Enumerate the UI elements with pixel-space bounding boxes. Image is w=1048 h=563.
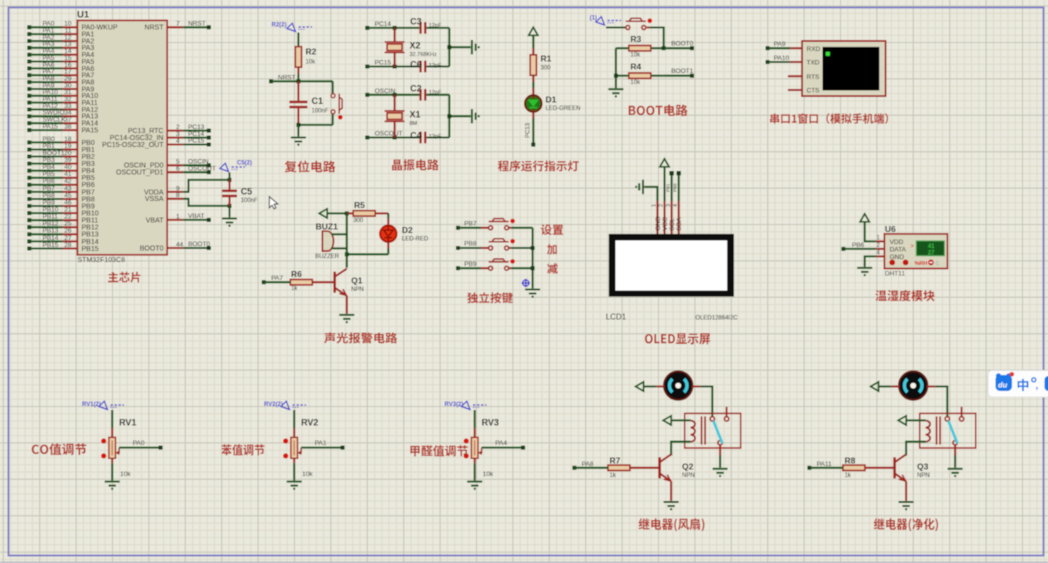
label CO值调节	[32, 443, 87, 455]
node NRST terminal	[269, 79, 273, 83]
push button PB8	[489, 239, 515, 250]
node PA4 terminal	[521, 446, 525, 450]
svg-text:VSSA: VSSA	[145, 196, 164, 203]
input method punctuation icon	[1032, 378, 1036, 382]
svg-text:OSCOUT_PD1: OSCOUT_PD1	[116, 170, 164, 177]
wiper of RV3	[480, 448, 482, 453]
wire vertical alarm rail	[346, 213, 348, 254]
svg-text:PB15: PB15	[43, 242, 59, 249]
power arrow relay coil	[663, 416, 671, 425]
wire coil to collector	[671, 442, 691, 456]
wire PB9 to button	[458, 267, 481, 269]
svg-text:C5: C5	[241, 187, 253, 197]
wire/pin PB15 (pin 28)	[27, 247, 31, 251]
wire R5 to D2	[387, 213, 389, 218]
svg-text:12pF: 12pF	[429, 63, 442, 69]
svg-text:PA7: PA7	[271, 275, 283, 282]
node BOOT0 junction	[662, 46, 666, 50]
relay switch lever	[713, 421, 722, 444]
node OSCIN terminal	[365, 93, 369, 97]
svg-text:8M: 8M	[410, 121, 418, 127]
svg-text:PB6: PB6	[43, 178, 56, 185]
svg-text:PB0: PB0	[672, 183, 677, 192]
svg-text:10k: 10k	[120, 471, 131, 478]
node PC15 terminal	[365, 65, 369, 69]
wire PB7 to button	[458, 227, 481, 229]
svg-text:R2(2): R2(2)	[272, 23, 287, 29]
svg-text:PC13: PC13	[526, 122, 532, 138]
LCD1 OLED12864I2C screen	[609, 234, 734, 297]
ground below C1	[297, 125, 299, 136]
node OSCOUT junction	[393, 136, 397, 140]
pin CTS stub	[788, 89, 802, 91]
svg-text:100nF: 100nF	[241, 198, 258, 204]
svg-text:C3: C3	[410, 17, 422, 27]
crystal X2 32.768KHz	[394, 28, 396, 42]
node NRST junction	[296, 79, 300, 83]
chip right pin OSCOUT_PD1 (pin 6)	[167, 171, 183, 173]
svg-text:VBAT: VBAT	[188, 213, 205, 220]
wire PB6 to DATA	[843, 248, 876, 250]
svg-text:R1: R1	[541, 54, 552, 64]
wire button PB7 to bus	[509, 227, 512, 229]
ground relay switch	[948, 469, 963, 477]
wire/pin PB13 (pin 26)	[27, 232, 31, 236]
wire NRST horizontal	[271, 80, 333, 82]
wire to BOOT1 terminal	[664, 75, 692, 77]
crystal X1 8M	[394, 95, 396, 111]
wire/pin BOOT1 (pin 20)	[27, 155, 31, 159]
svg-text:PB9: PB9	[464, 261, 477, 268]
svg-text:GND: GND	[655, 216, 662, 231]
svg-text:PB0: PB0	[43, 136, 56, 143]
svg-text:40: 40	[64, 164, 72, 171]
svg-text:TXD: TXD	[807, 60, 820, 67]
svg-text:PB13: PB13	[43, 228, 59, 235]
svg-text:PB11: PB11	[82, 218, 99, 225]
ground key bus	[525, 290, 540, 298]
svg-text:1: 1	[652, 204, 658, 207]
svg-text:PA1: PA1	[315, 440, 327, 447]
node key bus junction PB9	[531, 266, 535, 270]
wire probe to R2	[297, 33, 299, 47]
svg-text:X2: X2	[410, 41, 421, 51]
svg-text:RXD: RXD	[807, 46, 821, 53]
wire/pin PA10 (pin 31)	[27, 94, 31, 98]
wire/pin PA8 (pin 29)	[27, 80, 31, 84]
svg-text:Q3: Q3	[917, 461, 929, 471]
wire wiper to PA4	[482, 447, 522, 449]
node PB9 terminal	[456, 266, 460, 270]
node C1 bottom junction	[296, 123, 300, 127]
svg-text:NPN: NPN	[917, 473, 930, 479]
chip right pin PC13_RTC (pin 2)	[167, 130, 183, 132]
resistor R8 1k	[864, 467, 895, 469]
svg-text:22: 22	[64, 214, 72, 221]
LED D1 LED-GREEN	[525, 95, 541, 111]
wire VDDA to C5	[183, 180, 229, 192]
svg-text:PA15: PA15	[43, 124, 59, 131]
label OLED显示屏	[645, 333, 710, 344]
wire/pin PB10 (pin 21)	[27, 211, 31, 215]
svg-text:PB12: PB12	[43, 221, 59, 228]
label 设置	[541, 224, 563, 235]
svg-text:10k: 10k	[630, 80, 641, 86]
svg-text:X1: X1	[410, 110, 421, 120]
relay coil box	[685, 413, 741, 448]
svg-text:6: 6	[176, 166, 180, 173]
svg-text:LED-GREEN: LED-GREEN	[546, 106, 581, 112]
svg-text:D1: D1	[546, 95, 557, 105]
node PB6 terminal	[841, 247, 845, 251]
wire/pin PA6 (pin 16)	[27, 66, 31, 70]
node PA1 terminal	[341, 446, 345, 450]
svg-text:R8: R8	[845, 455, 856, 465]
wire PA8 to R7	[574, 467, 608, 469]
wiper of RV1	[117, 448, 119, 453]
svg-text:42: 42	[64, 178, 72, 185]
wire button PB8 to bus	[509, 247, 512, 249]
svg-text:R4: R4	[630, 62, 641, 72]
wire PC15 row	[367, 65, 419, 67]
svg-text:2: 2	[659, 204, 665, 207]
wire/pin PA0 (pin 10)	[27, 25, 31, 29]
ground RV2	[287, 482, 302, 490]
transistor Q2 NPN	[660, 454, 672, 481]
svg-text:PB8: PB8	[464, 241, 477, 248]
svg-text:45: 45	[64, 192, 72, 199]
node SDA pad	[677, 171, 681, 175]
node SCL pad	[669, 171, 673, 175]
svg-text:10k: 10k	[306, 60, 317, 66]
svg-text:PB10: PB10	[43, 207, 59, 214]
svg-text:PB1: PB1	[665, 183, 670, 192]
svg-text:RTS: RTS	[807, 74, 821, 81]
wire C1 bottom rail	[298, 124, 332, 126]
svg-text:PA15: PA15	[82, 128, 99, 135]
svg-text:R6: R6	[291, 269, 302, 279]
svg-text:RV3: RV3	[482, 417, 499, 427]
sensor U6 DHT11 body	[884, 234, 947, 269]
capacitor C6 12pF	[419, 61, 426, 73]
wire switch to ground	[719, 445, 721, 455]
ground RV1	[105, 482, 120, 490]
wire/pin PB3 (pin 39)	[27, 162, 31, 166]
wire/pin PB4 (pin 40)	[27, 169, 31, 173]
svg-text:SDA: SDA	[676, 217, 683, 231]
wire PA10 to TXD	[768, 61, 790, 63]
svg-text:PB7: PB7	[82, 189, 95, 196]
DHT11 display	[916, 241, 944, 256]
svg-text:PA9: PA9	[774, 41, 786, 48]
node R4 junction	[614, 74, 618, 78]
wire motor to relay switch	[692, 385, 701, 387]
svg-text:26: 26	[64, 228, 72, 235]
wire R3/R4 left rail	[615, 48, 617, 88]
svg-text:SCL: SCL	[669, 218, 676, 231]
svg-text:C1: C1	[312, 96, 324, 106]
input method partial icon	[1045, 376, 1048, 391]
chip right pin OSCIN_PD0 (pin 5)	[167, 164, 183, 166]
svg-text:25: 25	[64, 221, 72, 228]
svg-text:Q1: Q1	[351, 276, 363, 286]
svg-text:PA4: PA4	[495, 440, 507, 447]
wire/pin PB7 (pin 43)	[27, 190, 31, 194]
wire probe to boot button	[606, 26, 626, 28]
svg-text:38: 38	[64, 124, 72, 131]
resistor R1 300	[530, 55, 536, 76]
resistor R6 1k	[313, 281, 335, 283]
svg-text:PA11: PA11	[817, 461, 832, 468]
svg-text:PB2: PB2	[82, 154, 95, 161]
boot push button	[626, 18, 652, 29]
virtual terminal 串口1 window	[802, 41, 886, 96]
svg-text:,: ,	[1036, 381, 1039, 392]
svg-text:PA10: PA10	[774, 55, 790, 62]
svg-text:43: 43	[64, 185, 72, 192]
wire coil to collector	[906, 442, 926, 456]
svg-text:41: 41	[928, 244, 935, 250]
svg-text:18: 18	[64, 136, 72, 143]
svg-text:PB3: PB3	[43, 157, 56, 164]
wire wiper to PA0	[119, 447, 159, 449]
svg-text:PB7: PB7	[464, 220, 477, 227]
svg-text:PB13: PB13	[82, 232, 99, 239]
svg-text:3: 3	[666, 204, 672, 207]
node PC15 junction	[393, 65, 397, 69]
wire/pin PB1 (pin 19)	[27, 148, 31, 152]
wire/pin PA4 (pin 14)	[27, 53, 31, 57]
svg-text:PB11: PB11	[43, 214, 59, 221]
svg-text:C6: C6	[410, 60, 422, 70]
wire GND pin	[876, 255, 884, 257]
svg-text:10k: 10k	[302, 471, 313, 478]
node right rail junction	[447, 114, 451, 118]
svg-text:44: 44	[176, 241, 184, 248]
svg-text:19: 19	[64, 143, 72, 150]
label 甲醛值调节	[410, 445, 467, 456]
wire motor to relay switch	[927, 385, 936, 387]
label 主芯片	[108, 272, 140, 283]
svg-text:10k: 10k	[630, 53, 641, 59]
transistor Q1 NPN	[346, 254, 348, 267]
node PA8 terminal	[572, 466, 576, 470]
wire/pin PA1 (pin 11)	[27, 32, 31, 36]
svg-text:PB6: PB6	[852, 242, 865, 249]
svg-text:1k: 1k	[291, 286, 298, 292]
power arrow left of R5	[319, 209, 327, 218]
label 程序运行指示灯	[498, 160, 579, 171]
svg-text:LCD1: LCD1	[606, 313, 627, 322]
svg-text:PB5: PB5	[43, 171, 56, 178]
svg-text:C2: C2	[410, 84, 422, 94]
svg-text:du: du	[998, 381, 1008, 390]
wire RV2 to ground	[293, 458, 295, 463]
wire/pin PA3 (pin 13)	[27, 46, 31, 50]
label 减	[547, 263, 558, 274]
svg-text:NRST: NRST	[278, 74, 296, 81]
svg-text:C4: C4	[410, 131, 422, 141]
resistor R7 1k	[629, 467, 660, 469]
wire VDD	[865, 222, 877, 242]
svg-text:PC15: PC15	[188, 138, 205, 145]
svg-text:PB8: PB8	[43, 192, 56, 199]
relay switch contacts	[945, 407, 964, 445]
node C5 bottom junction	[228, 204, 232, 208]
node PA10 terminal	[766, 60, 770, 64]
svg-text:PB1: PB1	[43, 143, 56, 150]
svg-text:BUZZER: BUZZER	[315, 254, 340, 260]
ground right of crystal	[472, 40, 480, 54]
input method toolbar	[988, 370, 1048, 397]
svg-text:BOOT0: BOOT0	[671, 41, 693, 48]
wire D1 to PC13 terminal	[532, 112, 534, 119]
svg-text:PC15-OSC32_OUT: PC15-OSC32_OUT	[102, 142, 164, 149]
svg-text:2: 2	[176, 124, 180, 131]
ground Q2	[664, 502, 679, 510]
power arrow motor	[871, 382, 879, 391]
ground DHT11	[857, 268, 872, 276]
svg-text:OLED12864I2C: OLED12864I2C	[695, 316, 738, 322]
node collector junction	[345, 252, 349, 256]
node PC13 terminal	[531, 143, 535, 147]
svg-text:12pF: 12pF	[429, 23, 442, 29]
wire crystal right rail	[448, 28, 450, 67]
node PA0 terminal	[159, 446, 163, 450]
svg-text:1k: 1k	[610, 473, 617, 479]
svg-text:28: 28	[64, 242, 72, 249]
svg-text:VDD: VDD	[890, 239, 904, 246]
svg-text:8: 8	[176, 192, 180, 199]
wiper of RV2	[299, 448, 301, 453]
svg-text:RV1: RV1	[119, 417, 136, 427]
resistor R2 10k	[295, 47, 301, 67]
wire/pin PA15 (pin 38)	[27, 128, 31, 132]
chip right pin NRST (pin 7)	[167, 26, 183, 28]
wire RV3 to ground	[474, 458, 476, 463]
wire button PB9 to bus	[509, 267, 512, 269]
DHT11 icons	[889, 260, 895, 266]
svg-text:C: C	[936, 261, 940, 267]
wire PB8 to button	[458, 247, 481, 249]
pin RTS stub	[788, 75, 802, 77]
wire Q3 emitter to ground	[905, 481, 907, 501]
svg-text:100nF: 100nF	[312, 108, 329, 114]
wire probe to RV2	[293, 410, 295, 428]
svg-text:NPN: NPN	[682, 473, 695, 479]
svg-text:RV2: RV2	[301, 417, 318, 427]
wire/pin PA11 (pin 32)	[27, 101, 31, 105]
svg-text:4: 4	[673, 204, 679, 207]
node OSCOUT terminal	[365, 136, 369, 140]
svg-text:VBAT: VBAT	[146, 217, 164, 224]
svg-text:1k: 1k	[845, 473, 852, 479]
svg-text:300: 300	[541, 66, 552, 72]
LED D2 LED-RED	[380, 226, 396, 242]
power arrow OLED VCC	[660, 159, 669, 167]
svg-text:>: >	[911, 244, 915, 250]
node PB8 terminal	[456, 246, 460, 250]
wire/pin PB6 (pin 42)	[27, 183, 31, 187]
input method 中 icon	[1018, 379, 1029, 391]
power arrow DHT11 VDD	[860, 214, 869, 222]
svg-text:PB10: PB10	[82, 211, 99, 218]
power arrow relay coil	[898, 416, 906, 425]
svg-text:PC13_RTC: PC13_RTC	[128, 128, 164, 135]
capacitor C2 12pF	[419, 89, 426, 101]
wire/pin PB14 (pin 27)	[27, 239, 31, 243]
svg-text:PB7: PB7	[43, 185, 56, 192]
wire/pin SWDIO (pin 34)	[27, 114, 31, 118]
svg-text:46: 46	[64, 199, 72, 206]
svg-text:PA0: PA0	[133, 440, 145, 447]
wire/pin PA5 (pin 15)	[27, 60, 31, 64]
wire PA7 to R6	[264, 281, 291, 283]
node PA7 terminal	[262, 280, 266, 284]
svg-text:PB4: PB4	[43, 164, 56, 171]
capacitor C3 12pF	[419, 22, 426, 34]
svg-text:U6: U6	[885, 224, 896, 234]
svg-text:PB3: PB3	[82, 161, 95, 168]
ground Q3	[899, 502, 914, 510]
svg-text:7: 7	[176, 21, 180, 28]
wire/pin PB12 (pin 25)	[27, 225, 31, 229]
ground OLED GND pin	[635, 180, 643, 194]
power arrow motor	[636, 382, 644, 391]
motor of 继电器(风扇)	[664, 371, 692, 399]
wire OSCOUT row	[367, 136, 419, 138]
svg-text:PB9: PB9	[43, 199, 56, 206]
wire/pin PB8 (pin 45)	[27, 197, 31, 201]
label 继电器(净化)	[874, 518, 938, 531]
capacitor C1 100nF	[297, 81, 299, 100]
wire crystal right rail	[448, 95, 450, 138]
svg-text:C5(2): C5(2)	[237, 161, 252, 167]
wire/pin PA9 (pin 30)	[27, 87, 31, 91]
probe C5(2)	[228, 173, 230, 180]
mouse cursor	[269, 197, 278, 209]
svg-text:BOOT0: BOOT0	[140, 245, 164, 252]
svg-text:PB15: PB15	[82, 246, 99, 253]
svg-text:300: 300	[353, 218, 364, 224]
chip right pin PC14-OSC32_IN (pin 3)	[167, 137, 183, 139]
wire/pin PB11 (pin 22)	[27, 218, 31, 222]
relay coil box	[920, 413, 976, 448]
label BOOT电路	[629, 105, 688, 117]
ground relay switch	[713, 469, 728, 477]
capacitor C4 12pF	[419, 132, 426, 144]
svg-text:1: 1	[176, 213, 180, 220]
svg-text:(1): (1)	[590, 15, 597, 21]
wire key ground bus	[532, 228, 534, 288]
svg-text:PB5: PB5	[82, 175, 95, 182]
svg-text:PC13: PC13	[188, 124, 205, 131]
wire PC14 row	[367, 27, 419, 29]
wire switch to ground	[954, 445, 956, 455]
node PC14 terminal	[365, 26, 369, 30]
relay switch lever	[948, 421, 957, 444]
wire buzzer terminals	[332, 233, 347, 235]
power arrow above R1	[529, 27, 538, 35]
svg-text:CTS: CTS	[807, 88, 821, 95]
svg-text:STM32F103C8: STM32F103C8	[78, 257, 126, 264]
ground RV3	[467, 482, 482, 490]
node right rail junction	[447, 45, 451, 49]
label 声光报警电路	[324, 332, 397, 343]
svg-text:PB1: PB1	[82, 147, 95, 154]
wire probe to RV3	[474, 410, 476, 428]
svg-text:PB8: PB8	[82, 196, 95, 203]
